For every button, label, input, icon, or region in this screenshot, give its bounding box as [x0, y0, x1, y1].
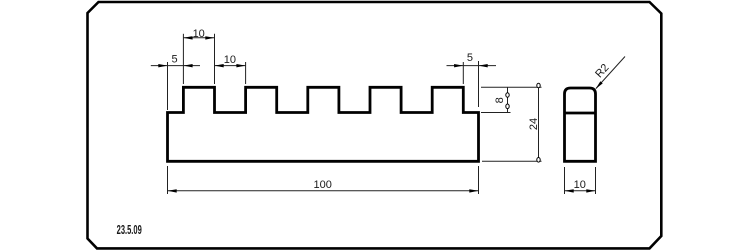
dimension 10 (side view width) arrowheads [565, 189, 596, 192]
dimension 100 (overall width) dimension line [168, 190, 479, 192]
drawing sheet border (chamfered rectangle) [88, 2, 662, 248]
dimension 5 (left offset) dimension line [151, 65, 200, 67]
leader arrowhead [596, 81, 603, 89]
dimension 10 (gap) extension line [245, 62, 247, 84]
dimension 5 (right offset) extension lines [463, 61, 478, 107]
dimension 10 (tooth width) dimension line [183, 37, 214, 39]
dimension 8 (tooth height) dimension line [507, 87, 509, 112]
svg-text:R2: R2 [593, 62, 611, 80]
svg-text:10: 10 [224, 54, 236, 66]
dimension 10 (tooth width) arrowheads [183, 36, 214, 39]
dimension 100 (overall width) arrowheads [168, 189, 479, 192]
side view step line (tooth root) [565, 112, 596, 115]
svg-text:10: 10 [574, 179, 586, 191]
svg-text:8: 8 [494, 97, 506, 103]
svg-text:10: 10 [193, 28, 205, 40]
svg-text:5: 5 [172, 53, 178, 65]
dimension 24 (total height) ring terminators [537, 83, 540, 162]
dimension 10 (gap) arrowheads [215, 64, 246, 67]
svg-text:23.5.09: 23.5.09 [117, 223, 142, 238]
dimension 5 (right offset) arrowheads [454, 64, 488, 67]
svg-text:5: 5 [467, 52, 473, 64]
dimension 5 (right offset) dimension line [447, 65, 497, 67]
part front view outline (comb profile) [168, 87, 479, 161]
dimension 8 (tooth height) extension lines [481, 87, 542, 112]
leader line for R2 [596, 57, 625, 89]
dimension 10 (gap) dimension line [215, 65, 246, 67]
dimension 10 (tooth width) extension lines [183, 34, 214, 84]
svg-text:24: 24 [528, 118, 540, 130]
dimension 5 (left offset) extension lines [167, 62, 169, 110]
dimension 24 (total height) extension line [482, 160, 542, 162]
dimension 10 (side view width) dimension line [565, 190, 596, 192]
dimension 5 (left offset) arrowheads [158, 64, 192, 67]
svg-text:100: 100 [314, 179, 332, 191]
part side view outline [565, 88, 596, 161]
dimension 24 (total height) dimension line [538, 83, 540, 162]
dimension 10 (side view width) extension lines [565, 167, 596, 194]
dimension 100 (overall width) extension lines [168, 166, 479, 194]
dimension 8 (tooth height) ring terminators [506, 93, 509, 109]
